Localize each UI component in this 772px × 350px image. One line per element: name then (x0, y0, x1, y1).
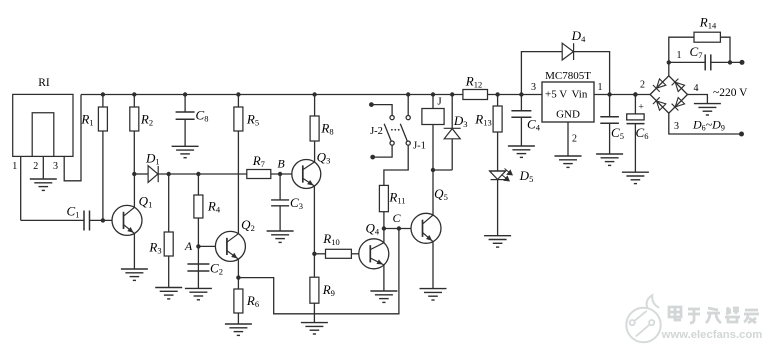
terminal J-2 bottom (370, 155, 375, 160)
LED D5 (489, 171, 506, 180)
wire C1 to Q1 base (90, 219, 113, 221)
terminal J-2 top (369, 102, 374, 107)
ground C4 (508, 146, 535, 157)
wire Q3 emitter down (313, 186, 315, 254)
svg-text:+: + (638, 103, 643, 113)
wire node A through C2 to ground (197, 246, 199, 288)
wire R3 top (168, 174, 170, 232)
wire C8 bottom (184, 119, 186, 146)
svg-text:Vin: Vin (572, 89, 588, 101)
wire to R9 (313, 254, 315, 277)
wire RI pin1 to C1 (21, 219, 84, 221)
watermark char you (744, 310, 759, 323)
wire C7 to AC terminal (711, 61, 742, 63)
wire C5 bottom (609, 123, 611, 154)
junction bus-R1 (101, 92, 105, 96)
transistor Q4 (359, 239, 389, 269)
resistor R8 body (310, 116, 319, 141)
diode D1 (148, 166, 158, 183)
wire bridge bottom to AC terminal (669, 113, 742, 134)
switch linkage dots (391, 129, 400, 131)
wire R2 bottom to node D1 (133, 131, 135, 174)
capacitor C2 (187, 264, 209, 271)
svg-text:1: 1 (598, 82, 603, 93)
diode D3 (444, 128, 461, 139)
wire Q1 emitter down (133, 233, 135, 269)
wire to D1 anode (134, 173, 148, 175)
capacitor C8 (176, 112, 195, 119)
junction Q2 emitter-R6 (236, 275, 240, 279)
resistor R1 body (98, 107, 107, 131)
wire Q5 emitter down (432, 242, 434, 289)
ground R9 (301, 323, 328, 334)
svg-text:J-1: J-1 (413, 140, 426, 151)
transistor Q2 (215, 231, 245, 261)
wire C6 bottom (634, 124, 636, 173)
wire R1 top (102, 95, 104, 108)
svg-text:C: C (392, 211, 401, 225)
relay coil J box (422, 109, 444, 125)
junction node B (278, 172, 282, 176)
wire regulator pin1 to bridge (594, 94, 650, 96)
diode D4 (562, 43, 573, 60)
wire J-2 bottom contact (373, 145, 392, 157)
wire bridge top to node1 (668, 62, 670, 75)
resistor R6 body (234, 289, 243, 313)
capacitor C4 (511, 111, 531, 117)
wire bus to J-1 top contact (407, 95, 409, 116)
wire bus to relay J (432, 95, 434, 109)
junction D1 wire-R3 (167, 172, 171, 176)
wire R9 bottom (313, 303, 315, 322)
bridge rectifier diamond D6-D9 (650, 76, 687, 113)
transistor Q3 (292, 160, 321, 189)
svg-text:RI: RI (38, 77, 50, 89)
ground Q5 (420, 289, 447, 300)
wire Q1 collector up (133, 174, 135, 207)
wire R11 top to J-1 contact (384, 145, 408, 185)
svg-text:D6~D9: D6~D9 (692, 118, 725, 133)
resistor R14 body (694, 32, 720, 42)
svg-text:J-2: J-2 (370, 126, 383, 137)
wire C4 top (520, 95, 522, 111)
svg-text:3: 3 (674, 121, 679, 132)
wire D5 to ground (497, 180, 499, 236)
ground regulator (555, 156, 582, 167)
wire node1 to R14 (669, 37, 694, 62)
junction bus-J coil (431, 92, 435, 96)
watermark char fa (706, 308, 721, 323)
ground C5 (596, 154, 623, 165)
wire Q5 collector up (432, 170, 434, 215)
wire Q4 emitter down (383, 265, 385, 291)
wire R5 top (237, 95, 239, 108)
junction R9-R10 (312, 252, 316, 256)
ground RI pin2 (30, 179, 57, 190)
switch J-2 arm (384, 124, 391, 142)
wire RI pin2 down (42, 156, 44, 179)
wire C8 top (184, 95, 186, 113)
junction R14-C7 right (728, 60, 732, 64)
wire main bus left segment (81, 94, 463, 96)
RI inner box (32, 113, 54, 157)
wire bus R12 to regulator (488, 94, 543, 96)
wire R10 to Q4 base (351, 253, 358, 255)
wire node C to Q5 base (384, 228, 411, 230)
svg-text:1: 1 (677, 50, 682, 61)
resistor R11 body (379, 185, 388, 211)
wire junction to R10 (314, 253, 325, 255)
svg-text:2: 2 (572, 134, 577, 145)
junction bus-R13 (495, 92, 499, 96)
svg-text:3: 3 (53, 161, 58, 172)
wire A to Q2 base (198, 245, 215, 247)
terminal AC neutral (739, 132, 744, 137)
resistor R3 body (164, 232, 173, 256)
switch J-2 bottom contact (390, 141, 394, 145)
wire relay J bottom to node (432, 125, 434, 171)
resistor R7 body (247, 170, 271, 179)
wire R8 top (314, 95, 316, 117)
wire D4 bypass right (574, 52, 610, 95)
switch J-1 top contact (406, 116, 410, 120)
wire R4 top (197, 174, 199, 195)
switch J-1 bottom contact (406, 141, 410, 145)
ground R6 (225, 324, 252, 335)
svg-text:+5 V: +5 V (545, 89, 567, 101)
wire bridge right to earth (688, 95, 708, 104)
wire J-2 top contact (371, 105, 392, 116)
bridge diode D9 bottom-right (672, 97, 685, 110)
wire R6 bottom (237, 313, 239, 324)
junction node A (196, 244, 200, 248)
svg-text:2: 2 (33, 161, 38, 172)
transistor Q1 (112, 205, 142, 235)
capacitor C7 (705, 54, 711, 70)
wire R13 to D5 (497, 132, 499, 171)
ground C6 (622, 172, 649, 183)
watermark char shao (725, 307, 740, 322)
svg-text:MC7805T: MC7805T (545, 70, 591, 82)
ground C3 (267, 231, 294, 242)
wire R5 bottom to Q2 collector (237, 131, 239, 234)
switch J-2 top contact (390, 116, 394, 120)
wire R13 top (497, 95, 499, 107)
junction node R2/D1/Q1 (132, 172, 136, 176)
wire R4 bottom to node A (197, 218, 199, 246)
junction bus-R5 (236, 92, 240, 96)
ground Q4 (370, 291, 397, 302)
capacitor C3 (271, 200, 289, 206)
ground Q1 emitter (121, 269, 148, 280)
wire C6 top (634, 95, 636, 114)
junction bus-D3 (450, 92, 454, 96)
wire R1 bottom to Q1 base (102, 131, 104, 220)
wire Q4 collector up (383, 229, 385, 243)
wire R3 bottom (168, 256, 170, 288)
wire R7 to Q3 base (271, 173, 292, 175)
svg-text:2: 2 (640, 80, 645, 91)
wire C4 bottom (520, 117, 522, 146)
wire R8 bottom to Q3 collector (314, 141, 316, 162)
wire D3 to Q5 collector node (433, 169, 452, 171)
svg-text:GND: GND (556, 109, 580, 121)
capacitor C5 (600, 117, 619, 123)
junction node C right (397, 226, 401, 230)
svg-text:www.elecfans.com: www.elecfans.com (661, 329, 763, 341)
ground R3 (155, 288, 182, 299)
svg-text:~220 V: ~220 V (713, 87, 748, 99)
svg-text:J: J (437, 96, 442, 108)
wire B to C3 (279, 174, 281, 200)
wire R2 top (133, 95, 135, 108)
wire RI pin1 down (20, 156, 22, 220)
resistor R12 body (463, 90, 488, 100)
wire Q2 emitter feedback to node C (238, 229, 399, 314)
bridge diode D6 top-left (653, 79, 666, 92)
watermark char zi (688, 309, 700, 323)
junction bus-C4 (519, 92, 523, 96)
junction Q5 collector node (431, 168, 435, 172)
transistor Q5 (411, 213, 441, 243)
earth node 4 (694, 104, 721, 115)
regulator U1 MC7805T box (542, 82, 594, 122)
wire D1 cathode to R7 (158, 173, 247, 175)
ground C2 (185, 288, 212, 299)
wire R14 to node right (720, 37, 730, 62)
ground C8 (172, 146, 199, 157)
junction node 1 (667, 60, 671, 64)
wire bus to D3 cathode (451, 95, 453, 129)
resistor R4 body (194, 195, 203, 218)
resistor R5 body (234, 107, 243, 131)
wire Q2 emitter to R6 (237, 259, 239, 289)
terminal AC line (740, 60, 745, 65)
resistor R13 body (493, 106, 502, 132)
bridge diode D8 bottom-left (653, 97, 666, 110)
junction D1 wire-R4 (196, 172, 200, 176)
junction pin1-C6 (633, 92, 637, 96)
svg-text:3: 3 (531, 82, 536, 93)
wire D4 bypass left (521, 52, 562, 95)
component RI outer box (13, 94, 73, 156)
junction bus-R2 (132, 92, 136, 96)
wire D3 anode down (451, 139, 453, 170)
bridge diode D7 top-right (672, 79, 685, 92)
svg-text:4: 4 (694, 83, 699, 94)
watermark logo (626, 295, 660, 342)
wire regulator pin2 down (567, 122, 569, 156)
junction R1-Q1 base (101, 218, 105, 222)
wire C5 top (609, 95, 611, 117)
resistor R10 body (326, 249, 352, 258)
wire RI pin3 riser to bus (64, 95, 81, 181)
junction bus-J1 (406, 92, 410, 96)
junction bus-C8 (183, 92, 187, 96)
watermark char dian (669, 307, 681, 320)
svg-text:A: A (184, 239, 193, 253)
junction node 2 (633, 92, 637, 96)
ground D5 (484, 236, 511, 247)
LED D5 arrows (502, 169, 513, 181)
switch J-1 arm (400, 124, 407, 142)
svg-text:B: B (277, 156, 285, 170)
resistor R9 body (310, 277, 319, 303)
resistor R2 body (130, 107, 139, 131)
capacitor C1 (84, 211, 90, 231)
capacitor C6 polarized (627, 114, 645, 124)
junction node C left (382, 226, 386, 230)
svg-text:1: 1 (12, 161, 17, 172)
junction bus-R8 (312, 92, 316, 96)
wire R11 bottom (383, 212, 385, 229)
wire node1 to C7 (669, 61, 705, 63)
wire C3 bottom (279, 206, 281, 231)
junction pin1-C5 (607, 92, 611, 96)
